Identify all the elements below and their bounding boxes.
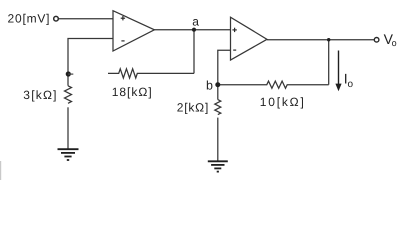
- op-amp U1: [113, 11, 154, 51]
- svg-text:2[kΩ]: 2[kΩ]: [177, 101, 209, 115]
- node a junction dot: [192, 28, 196, 32]
- svg-text:o: o: [392, 38, 397, 48]
- wire: U1 inverting input left and down to feedback node: [68, 39, 113, 86]
- wire: R3 bottom lead to ground: [217, 118, 219, 162]
- svg-text:a: a: [192, 14, 199, 28]
- terminal: Vo output, open circle: [374, 38, 379, 43]
- U1 plus mark (non-inverting input): [121, 16, 125, 20]
- resistor R3 2[kOhm] vertical zigzag: [215, 100, 221, 115]
- svg-text:20[mV]: 20[mV]: [8, 12, 50, 26]
- svg-text:3[kΩ]: 3[kΩ]: [23, 88, 56, 102]
- wire: R1 bottom lead to ground: [67, 107, 69, 149]
- wire: R4 right lead rising to output rail: [328, 40, 330, 85]
- terminal: 20[mV] input source, open circle: [54, 16, 59, 21]
- svg-text:o: o: [348, 79, 354, 90]
- wire: source terminal to U1 non-inverting input: [58, 18, 113, 20]
- wire: node a down to feedback resistor R2: [193, 30, 195, 74]
- ground symbol (below R3): [208, 161, 228, 171]
- ground symbol (below R1): [58, 149, 79, 160]
- resistor R4 10[kOhm] horizontal zigzag with leads from node b: [218, 81, 329, 88]
- op-amp U2: [231, 17, 268, 60]
- wire: U1 output rail through node a to U2 non-inverting input: [154, 29, 230, 31]
- wire: U2 inverting input left and down through node b: [218, 50, 231, 99]
- svg-text:18[kΩ]: 18[kΩ]: [112, 85, 152, 99]
- resistor R2 18[kOhm] horizontal zigzag with leads: [108, 69, 194, 78]
- current arrow Io pointing down: [335, 51, 341, 92]
- svg-text:b: b: [206, 79, 213, 93]
- scan artifact: faint left-edge mark: [0, 161, 1, 180]
- svg-text:10[kΩ]: 10[kΩ]: [260, 95, 304, 109]
- U1 minus mark (inverting input): [121, 40, 124, 42]
- resistor R1 3[kOhm] vertical zigzag: [65, 86, 72, 104]
- junction: output rail to R4 branch: [327, 38, 330, 41]
- junction: feedback node on U1 inverting net: [66, 71, 71, 76]
- wire: short stub right of feedback junction: [68, 73, 73, 75]
- wire: U2 output to Vo terminal: [267, 39, 374, 41]
- U2 minus mark (inverting input): [233, 49, 236, 51]
- U2 plus mark (non-inverting input): [232, 28, 236, 32]
- node b junction dot: [215, 82, 220, 87]
